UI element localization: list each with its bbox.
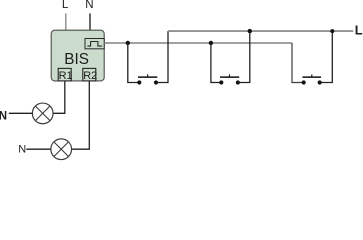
svg-text:BIS: BIS (64, 51, 89, 68)
svg-text:R1: R1 (59, 70, 73, 82)
pulse input symbol (85, 39, 104, 49)
wire pulse bus end drop to S3 (292, 43, 304, 83)
relay output R1 (58, 68, 72, 82)
svg-text:L: L (355, 22, 363, 37)
wire N supply to BIS top (89, 13, 91, 30)
wire N to lamp H2 (26, 148, 51, 150)
junction pulse bus / S1 (126, 41, 130, 45)
wire R2 to lamp H2 (72, 81, 90, 149)
wire S3 right to L rail (320, 31, 333, 82)
junction L rail / S3 riser (330, 29, 334, 33)
lamp H1 (32, 103, 53, 124)
wire N to lamp H1 (9, 112, 33, 114)
junction L rail / S2 riser (248, 29, 252, 33)
relay module BIS (51, 30, 104, 81)
wire pulse bus from BIS to buttons (104, 42, 292, 44)
wire L supply to BIS top (65, 13, 67, 30)
svg-text:N: N (18, 144, 26, 156)
svg-text:N: N (0, 111, 7, 123)
junction pulse bus / S2 (209, 41, 213, 45)
push button S1 (137, 74, 158, 84)
svg-text:R2: R2 (83, 70, 97, 82)
wire drop to S1 left (128, 43, 140, 83)
wire L rail (168, 30, 353, 32)
svg-text:L: L (62, 0, 69, 11)
wire S1 right to L rail (156, 31, 168, 82)
wire R1 to lamp H1 (53, 81, 65, 113)
push button S3 (302, 74, 322, 84)
svg-text:N: N (85, 0, 93, 11)
lamp H2 (51, 139, 72, 160)
push button S2 (219, 74, 240, 84)
relay output R2 (83, 68, 97, 82)
wire drop to S2 left (211, 43, 221, 83)
wire S2 right to L rail (238, 31, 250, 82)
